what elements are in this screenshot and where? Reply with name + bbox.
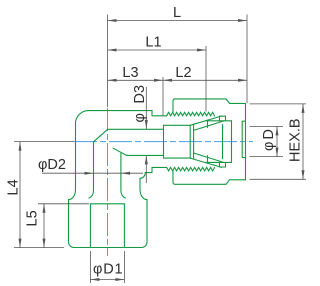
arrow phiD1 left	[90, 278, 99, 281]
block right edge	[146, 200, 148, 242]
arrow L1 right	[197, 49, 206, 52]
ferrule front vertical bottom	[207, 156, 209, 163]
socket left line	[89, 204, 91, 248]
nut top flat	[230, 102, 246, 104]
block bottom-left corner	[69, 242, 75, 248]
extension line HEXB top	[250, 103, 307, 105]
arrow L3 left	[108, 79, 117, 82]
centerline horizontal (leg axis)	[74, 141, 253, 143]
dimension line L5	[43, 204, 45, 248]
body face bottom	[151, 167, 153, 172]
svg-text:D3: D3	[132, 85, 148, 104]
arrow L left	[108, 19, 117, 22]
dimension line L3	[108, 79, 164, 81]
ferrule shoulder top	[206, 120, 232, 122]
dimension line L1	[108, 49, 207, 51]
thread relief bottom	[152, 166, 167, 168]
dimension line phiD1	[90, 279, 124, 281]
nut top edge	[175, 98, 226, 100]
inner corner fillet	[140, 173, 145, 179]
nut cone edge bottom inner	[194, 153, 224, 163]
right flare fillet	[140, 190, 147, 200]
dimension line phiD2	[42, 172, 143, 174]
nut top chamfer	[226, 99, 230, 104]
dimension line L2	[163, 79, 247, 81]
arrow phiD top	[276, 126, 279, 135]
dimension line HEXB	[302, 104, 304, 179]
bore bottom line	[127, 154, 164, 156]
ferrule front vertical top	[207, 121, 209, 128]
extension line phiD bottom	[250, 156, 284, 158]
extension line right of L1	[205, 46, 207, 112]
nut right face	[245, 103, 247, 179]
bore corner diagonal lower	[113, 148, 126, 155]
bore top line	[108, 128, 164, 130]
block bottom edge	[74, 247, 142, 249]
nut bottom left face	[172, 171, 174, 183]
thread zigzag top	[167, 112, 215, 116]
arrow L4 top	[19, 142, 22, 151]
arrow HEXB bottom	[302, 170, 305, 179]
thread zigzag bottom	[167, 167, 215, 171]
block left edge	[68, 200, 70, 242]
extension line left of L L1 L3	[107, 15, 109, 108]
nut cone edge top inner	[194, 121, 224, 130]
nut bottom edge	[173, 182, 226, 184]
svg-text:φ: φ	[261, 142, 277, 151]
nut cone edge top outer	[190, 116, 221, 125]
arrow L4 bottom	[19, 239, 22, 248]
nut bottom flat	[230, 179, 246, 181]
bore left line	[89, 142, 94, 198]
extension line L5 top	[38, 203, 89, 205]
extension line phiD1 right	[123, 251, 125, 283]
body right edge vertical leg	[139, 178, 141, 189]
body top edge	[89, 110, 153, 112]
socket top line	[90, 203, 124, 205]
svg-text:φD1: φD1	[93, 262, 123, 278]
svg-text:L1: L1	[145, 35, 161, 51]
arrow phiD2 left	[85, 172, 94, 175]
extension line phiD top	[250, 125, 284, 127]
arrow phiD3 up	[145, 155, 148, 164]
arrow phiD bottom	[276, 148, 279, 157]
svg-text:φ: φ	[132, 113, 148, 122]
centerline vertical (leg axis)	[107, 108, 109, 256]
dimension line phiD	[276, 126, 278, 156]
ferrule shoulder bottom	[206, 161, 232, 163]
extension line phiD1 left	[89, 251, 91, 283]
nut face chamfer line	[242, 121, 245, 157]
body left edge	[75, 124, 77, 190]
ferrule tab bottom	[220, 162, 226, 167]
ferrule inner vertical	[222, 125, 224, 159]
svg-text:HEX.B: HEX.B	[288, 118, 304, 162]
body outer corner arc	[76, 111, 89, 124]
arrow L5 bottom	[43, 239, 46, 248]
arrow L2 right	[238, 79, 247, 82]
arrow L1 left	[108, 49, 117, 52]
body face top	[151, 111, 153, 116]
ferrule back face	[231, 121, 233, 163]
bore corner diagonal upper	[94, 129, 108, 142]
svg-text:φD2: φD2	[38, 157, 66, 173]
svg-text:L5: L5	[25, 210, 41, 226]
nut cone edge bottom outer	[190, 158, 221, 167]
svg-text:D: D	[261, 129, 277, 139]
extension line L4 L5 bottom	[14, 247, 64, 249]
body bottom edge	[145, 172, 152, 174]
svg-text:L2: L2	[175, 65, 191, 81]
arrow L5 top	[43, 204, 46, 213]
arrow phiD3 down	[145, 120, 148, 129]
arrow L2 left	[163, 79, 172, 82]
arrow phiD1 right	[115, 278, 124, 281]
arrow L right	[238, 19, 247, 22]
extension line L3 L2 boundary	[162, 77, 164, 116]
svg-text:L: L	[173, 5, 181, 21]
socket right line	[123, 204, 125, 248]
svg-text:L4: L4	[6, 179, 22, 195]
block bottom-right corner	[142, 242, 148, 248]
leader phiD3 lower	[145, 155, 147, 183]
extension line HEXB bottom	[250, 178, 307, 180]
dimension line L4	[19, 142, 21, 248]
dimension line L	[108, 20, 248, 22]
nut bottom chamfer	[226, 180, 230, 185]
svg-text:L3: L3	[122, 65, 138, 81]
arrow phiD2 right	[121, 172, 130, 175]
sleeve rectangle	[164, 125, 191, 158]
arrow HEXB top	[302, 104, 305, 113]
thread relief top	[152, 115, 167, 117]
ferrule tab top	[220, 116, 226, 121]
ferrule nose edge	[193, 124, 195, 158]
leader phiD3 upper	[145, 87, 147, 129]
arrow L3 right	[154, 79, 163, 82]
nut left face	[173, 99, 175, 113]
left flare fillet	[69, 190, 76, 200]
extension line L4 top	[14, 141, 74, 143]
extension line right of L L2	[246, 15, 248, 104]
bore right line	[121, 153, 126, 198]
